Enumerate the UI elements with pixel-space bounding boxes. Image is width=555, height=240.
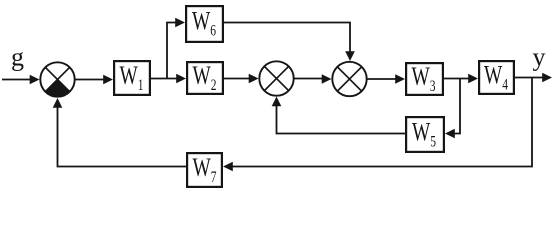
block W6 bbox=[186, 6, 223, 42]
wire W3 to W4 bbox=[444, 74, 478, 84]
wire g input to summing junction S1 bbox=[2, 75, 40, 85]
block W5 bbox=[406, 117, 444, 152]
wire W4 to output y bbox=[515, 73, 552, 83]
wire takeoff down and left to W7 bbox=[223, 78, 532, 172]
wire S3 to W3 bbox=[367, 74, 405, 84]
wire W5 to S2 (feedback up into S2 bottom) bbox=[272, 97, 405, 134]
summing junction S1 (comparator, bottom quadrant filled) bbox=[40, 62, 74, 96]
wire S1 to W1 bbox=[75, 75, 113, 85]
block W4 bbox=[479, 61, 514, 94]
wire S2 to summing junction S3 bbox=[294, 74, 332, 84]
block W7 bbox=[187, 153, 222, 187]
wire W1 to W2 bbox=[151, 74, 186, 84]
svg-text:y: y bbox=[533, 43, 546, 72]
wire branch up to W6 bbox=[167, 18, 185, 79]
wire W6 to summing junction S3 bbox=[224, 23, 355, 62]
wire takeoff down to W5 bbox=[445, 79, 460, 139]
summing junction S3 bbox=[332, 62, 366, 96]
block W3 bbox=[406, 62, 443, 95]
summing junction S2 bbox=[259, 61, 293, 95]
block W2 bbox=[187, 61, 223, 94]
svg-text:g: g bbox=[11, 43, 24, 72]
block W1 bbox=[114, 61, 150, 95]
wire W7 to S1 (main feedback up into S1 bottom) bbox=[53, 98, 186, 167]
wire W2 to summing junction S2 bbox=[224, 74, 259, 84]
